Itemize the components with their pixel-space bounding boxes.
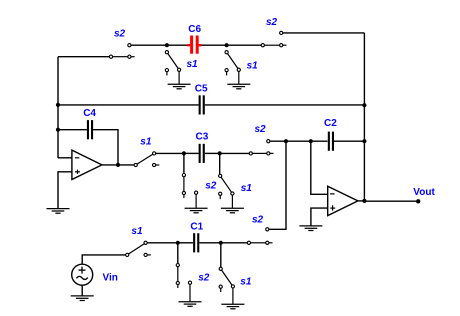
wire C3 to node D [205,152,220,154]
ground below SW11 [179,302,202,307]
wire U1 plus input to ground [58,172,72,209]
svg-text:C6: C6 [188,24,201,35]
wire source to ground [81,285,83,295]
wire C6 to node B [202,44,227,46]
wire C1 to node I [199,242,221,244]
wire C4 right down to U1 output [93,130,118,165]
ground below U2 [299,226,322,231]
capacitor C3 [200,144,204,163]
wire SW11 right throw to ground [189,284,191,301]
capacitor C6 [192,36,198,54]
wire node H down to SW11 [177,243,179,264]
op-amp U1 [72,150,102,179]
node A junction [165,43,169,47]
svg-text:s2: s2 [114,28,126,39]
node C5 row left junction [56,103,60,107]
node I junction [219,241,223,245]
svg-text:s1: s1 [140,136,152,147]
node E junction [284,139,288,143]
switch s1 SW9 at Vin [126,241,151,256]
capacitor C5 [200,95,204,114]
node C2 right junction [362,139,366,143]
wire node D to SW8 [220,152,250,154]
switch s1 SW12 below node I [219,267,234,292]
wire node D down to SW7 [219,153,221,174]
svg-text:s2: s2 [255,124,267,135]
node B junction [225,43,229,47]
wire right vertical bus [363,33,365,201]
ground below U1 [47,209,70,214]
svg-text:C5: C5 [195,83,208,94]
node C junction [182,151,186,155]
wire node C to C3 [184,152,199,154]
switch s2 SW4 top-right [261,31,286,47]
wire node H to C1 [178,242,193,244]
op-amp U2 [328,186,358,215]
node Vout terminal [416,199,420,203]
wire node I to SW10 [221,242,248,244]
wire U2 plus input to ground [311,208,328,226]
switch s2 SW8 right of node D [249,140,273,155]
switch s1 SW7 below node D [219,174,234,199]
wire node I down to SW12 [220,243,222,267]
switch s2 SW10 bottom-right [247,228,272,245]
switch s2 SW6 below node C [182,174,197,199]
capacitor C4 [88,120,92,139]
wire node B to SW4 [227,44,262,46]
switch s1 SW2 below node A [165,51,180,76]
svg-text:s2: s2 [205,180,217,191]
svg-text:C1: C1 [190,222,203,233]
svg-text:s2: s2 [252,215,264,226]
wire source up to SW9 [82,255,126,265]
svg-text:Vin: Vin [103,272,118,283]
node F junction [309,139,313,143]
wire C5 row right [205,104,365,106]
node U1 output junction [116,163,120,167]
ground below SW12 [221,304,244,309]
node H junction [176,241,180,245]
ground below SW7 [221,208,244,213]
node C5 row right junction [362,103,366,107]
wire SW1 top throw to node A [131,44,167,46]
capacitor C2 [329,132,333,151]
switch s2 SW11 below node H [176,264,191,289]
ground below Vin [71,296,94,301]
wire node E down to SW10 top throw [269,141,286,229]
node D junction [218,151,222,155]
ground below SW6 [185,208,208,213]
svg-text:C3: C3 [196,131,209,142]
svg-text:s2: s2 [198,272,210,283]
wire node C down to SW6 [183,153,185,173]
svg-text:Vout: Vout [413,187,435,198]
svg-text:s1: s1 [131,226,143,237]
wire SW4 top throw to right bus [283,32,365,34]
wire node F down to U2 minus input [311,141,328,194]
ground below SW2 [168,84,191,89]
svg-text:C4: C4 [83,108,96,119]
wire U2 output [358,200,365,202]
switch s1 SW5 mid [134,152,159,167]
source Vin [72,264,93,285]
svg-text:s2: s2 [266,17,278,28]
svg-text:s1: s1 [187,59,199,70]
wire SW12 right throw to ground [232,288,234,304]
wire node A to C6 [167,44,188,46]
node U2 output junction [362,199,366,203]
wire U2 output to Vout terminal [364,200,416,202]
switch s2 SW1 top-left [109,44,134,59]
node C4 row left junction [56,128,60,132]
wire SW5 top throw to node C [156,152,184,154]
wire SW3 right throw to ground [238,72,240,84]
wire SW9 top throw to node H [147,242,178,244]
ground below SW3 [227,84,250,89]
wire SW6 right throw to ground [195,194,197,208]
wire SW7 right throw to ground [231,195,233,208]
svg-text:s1: s1 [240,276,252,287]
svg-text:C2: C2 [324,118,337,129]
capacitor C1 [194,233,198,252]
wire SW2 right throw to ground [178,72,180,84]
svg-text:s1: s1 [241,183,253,194]
wire into U1 minus input [58,157,72,159]
wire left vertical bus [57,57,59,158]
capacitor C6 red leads [187,44,190,46]
wire U1 output [102,164,134,166]
wire left feedback horizontal [58,56,110,58]
wire SW8 top throw to C2 [270,140,328,142]
svg-text:s1: s1 [247,61,259,72]
wire C2 to right bus [334,140,365,142]
wire C4 row left [58,129,87,131]
wire C5 row left [58,104,199,106]
switch s1 SW3 below node B [225,51,240,76]
